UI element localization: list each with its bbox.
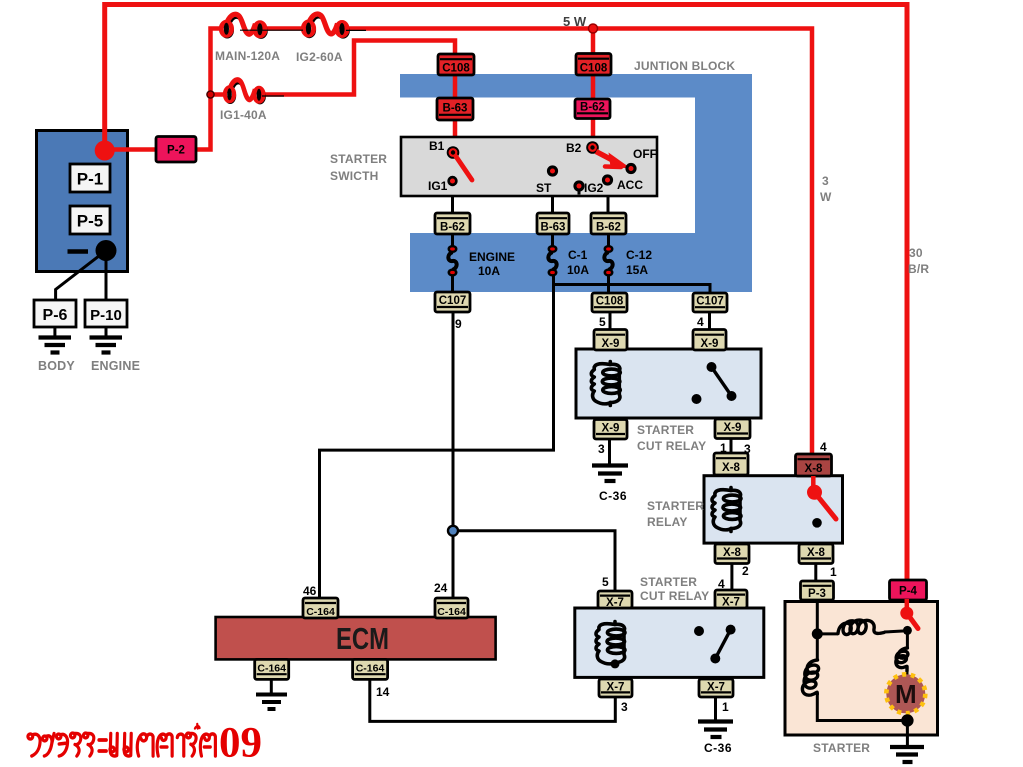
svg-text:OFF: OFF xyxy=(633,147,657,161)
svg-text:15A: 15A xyxy=(626,263,648,277)
relay X-9 box xyxy=(576,349,761,418)
switch terminal ACC xyxy=(602,174,613,185)
switch terminal B2 xyxy=(586,141,599,154)
svg-text:BODY: BODY xyxy=(38,359,75,373)
svg-text:C-164: C-164 xyxy=(257,663,286,675)
junction block xyxy=(400,74,752,292)
svg-text:M: M xyxy=(895,679,917,709)
wire X-9 coil into relay xyxy=(609,349,612,365)
wire X-9 lever to X-9(1) xyxy=(730,396,733,420)
connector X-9 bottom-right xyxy=(715,419,750,439)
connector B-63 under ST xyxy=(537,213,569,234)
svg-text:24: 24 xyxy=(434,581,448,595)
svg-text:1: 1 xyxy=(830,565,837,579)
connector X-8 bottom-right xyxy=(799,544,833,564)
svg-text:C-164: C-164 xyxy=(306,606,335,618)
battery minus bar xyxy=(68,249,89,254)
svg-text:X-7: X-7 xyxy=(707,682,725,694)
fuse C-12 15A xyxy=(604,245,614,277)
relay X-8 box xyxy=(704,476,843,543)
svg-text:ENGINE: ENGINE xyxy=(91,359,140,373)
switch terminal B1 xyxy=(447,146,460,159)
svg-text:46: 46 xyxy=(303,584,317,598)
svg-text:P-3: P-3 xyxy=(808,588,826,600)
fusible link MAIN-120A xyxy=(221,14,266,37)
svg-text:ST: ST xyxy=(536,181,552,195)
svg-text:1: 1 xyxy=(720,441,727,455)
svg-text:10A: 10A xyxy=(567,263,589,277)
wire X-7(3) to bottom run to ECM pin14 xyxy=(370,679,616,721)
svg-text:B-63: B-63 xyxy=(541,222,566,234)
starter junction dot left xyxy=(812,628,823,639)
svg-text:1: 1 xyxy=(722,700,729,714)
relay coil X-8 xyxy=(712,488,741,532)
svg-text:3: 3 xyxy=(822,174,829,188)
svg-text:W: W xyxy=(820,190,832,204)
connector X-7 pin3 xyxy=(599,679,632,697)
wire X-7 coil bottom to X-7(3) xyxy=(614,662,617,680)
connector C108 top-right xyxy=(576,54,611,76)
wire P-6 to ground xyxy=(53,327,56,336)
ground C-36 under X-7 xyxy=(698,722,733,738)
svg-text:4: 4 xyxy=(697,315,704,329)
wire ST to B-63 xyxy=(551,174,554,215)
connector C-164 pin24 xyxy=(435,598,468,618)
connector B-63 top-left xyxy=(437,98,473,120)
starter red switch dot and lever xyxy=(900,607,913,620)
relay X-7 box xyxy=(575,608,764,677)
wire IG1 branch xyxy=(211,92,227,97)
connector C-164 pin14 xyxy=(353,659,388,679)
wire P-3 down into starter xyxy=(816,600,819,634)
relay X-7 switch xyxy=(694,625,736,664)
svg-text:C108: C108 xyxy=(580,63,608,75)
wire C108(5) to X-9 coil pin xyxy=(609,311,612,331)
svg-text:B-63: B-63 xyxy=(443,103,468,115)
svg-text:P-4: P-4 xyxy=(899,586,918,598)
svg-text:C107: C107 xyxy=(439,295,467,307)
svg-text:5: 5 xyxy=(599,315,606,329)
wire 5W junction down to C108 right xyxy=(591,29,596,56)
svg-text:CUT RELAY: CUT RELAY xyxy=(637,439,706,453)
svg-text:10A: 10A xyxy=(478,264,500,278)
wire battery to top rail to P-4 xyxy=(105,5,907,582)
connector C-164 pin46 xyxy=(303,598,338,618)
svg-text:IG1-40A: IG1-40A xyxy=(220,108,267,122)
connector P-4 pink xyxy=(890,580,927,600)
starter right vertical coil xyxy=(896,648,908,671)
X-7 coil bottom junction dot xyxy=(611,659,620,668)
box P-6 xyxy=(34,300,76,327)
wire X-9(3) to ground C-36 xyxy=(608,439,611,464)
wire X-8 switch contact to X-8 BR xyxy=(815,522,818,545)
connector X-8 pin3 xyxy=(714,453,748,475)
connector X-7 pin4 xyxy=(715,590,747,609)
junction dot ENGINE wire xyxy=(448,526,458,536)
svg-text:X-9: X-9 xyxy=(724,422,742,434)
switch lever B1-IG1 red xyxy=(456,157,472,181)
svg-text:X-9: X-9 xyxy=(602,338,620,350)
svg-text:5: 5 xyxy=(602,575,609,589)
box P-5 xyxy=(70,206,110,234)
svg-text:IG1: IG1 xyxy=(428,179,448,193)
svg-text:P-6: P-6 xyxy=(43,307,68,324)
wire X-9(1) to X-8(3) xyxy=(730,439,733,455)
battery negative dot xyxy=(96,240,117,261)
ground under ECM C-164 xyxy=(256,695,287,710)
svg-text:B-62: B-62 xyxy=(580,102,605,114)
wire thread MAIN-IG2 black xyxy=(240,29,303,31)
connector B-62 under IG1 xyxy=(435,213,470,234)
svg-text:3: 3 xyxy=(744,442,751,456)
wire X-8 coil bottom to X-8 BL xyxy=(730,530,733,545)
svg-text:X-8: X-8 xyxy=(807,547,826,559)
svg-text:ECM: ECM xyxy=(336,621,389,656)
wire 5W: IG2 fuse right across, down to X-8 pin4 xyxy=(340,29,812,456)
connector X-7 pin1 xyxy=(699,679,733,697)
svg-text:JUNTION BLOCK: JUNTION BLOCK xyxy=(634,59,735,73)
wire X-9 coil bottom to X-9(3) xyxy=(609,402,612,421)
svg-text:B-62: B-62 xyxy=(440,222,465,234)
svg-text:9: 9 xyxy=(455,317,462,331)
svg-text:C108: C108 xyxy=(596,296,624,308)
wire starter to ground xyxy=(906,721,909,746)
svg-text:X-8: X-8 xyxy=(723,547,742,559)
wire IG1 fuse to C108 left xyxy=(259,41,455,95)
svg-text:C-36: C-36 xyxy=(704,741,732,755)
relay coil X-9 xyxy=(591,362,620,406)
fusible link IG1-40A xyxy=(225,80,265,103)
connector P-2 pink xyxy=(156,137,196,163)
svg-text:ACC: ACC xyxy=(617,178,643,192)
svg-text:30: 30 xyxy=(909,246,923,260)
connector C108 top-left xyxy=(438,54,474,75)
svg-text:STARTER: STARTER xyxy=(637,423,694,437)
fuse ENGINE 10A xyxy=(448,245,458,277)
wire X-8(3) to X-8 coil xyxy=(730,475,733,490)
svg-text:STARTER: STARTER xyxy=(647,499,704,513)
svg-text:ENGINE: ENGINE xyxy=(469,250,515,264)
switch terminal IG2 xyxy=(578,188,581,195)
battery positive red circle xyxy=(95,141,115,161)
wire X-7(5) to coil xyxy=(613,607,616,625)
relay X-8 red switch xyxy=(807,476,836,528)
svg-text:MAIN-120A: MAIN-120A xyxy=(215,49,280,63)
box P-1 xyxy=(70,164,110,192)
battery box xyxy=(37,131,128,272)
svg-text:X-8: X-8 xyxy=(722,462,741,474)
relay X-9 switch xyxy=(692,362,737,404)
wire battery negative to P-10 xyxy=(105,251,108,302)
wire X-8 BR to P-3 xyxy=(814,563,817,582)
connector X-9 top-right xyxy=(693,330,726,351)
svg-text:IG2-60A: IG2-60A xyxy=(296,50,343,64)
wire X-9 switch pin into relay xyxy=(708,349,711,368)
ground BODY under P-6 xyxy=(39,338,72,353)
svg-text:X-7: X-7 xyxy=(607,682,625,694)
junction dot IG1 feed xyxy=(207,91,214,98)
starter box xyxy=(785,602,938,736)
svg-text:X-7: X-7 xyxy=(606,597,624,609)
wire C107(4) to X-9 switch pin xyxy=(708,311,711,331)
connector C-164 ground xyxy=(255,659,289,679)
wire C-1 fuse down, branch to C107 right, down to C-164 46 xyxy=(320,271,554,598)
wire X-7(4) into relay xyxy=(729,607,732,631)
wire battery negative to P-6 xyxy=(56,251,106,302)
svg-text:3: 3 xyxy=(598,442,605,456)
svg-text:X-8: X-8 xyxy=(805,463,824,475)
svg-text:C-1: C-1 xyxy=(568,248,588,262)
relay coil X-7 xyxy=(596,622,625,666)
connector P-3 xyxy=(801,581,834,600)
svg-text:STARTER: STARTER xyxy=(813,741,870,755)
starter horizontal wire with coil xyxy=(817,632,838,635)
svg-text:B1: B1 xyxy=(429,139,445,153)
svg-text:P-2: P-2 xyxy=(167,145,185,157)
wire IG1 to B-62 xyxy=(451,184,454,215)
ground ENGINE under P-10 xyxy=(90,338,123,353)
starter horizontal coil xyxy=(838,620,884,634)
svg-text:09: 09 xyxy=(219,720,262,767)
starter left vertical wire xyxy=(816,634,819,660)
svg-text:CUT RELAY: CUT RELAY xyxy=(640,589,709,603)
switch terminal IG1 xyxy=(447,176,457,186)
connector C108 pin5 xyxy=(592,293,627,312)
svg-text:4: 4 xyxy=(820,440,827,454)
svg-text:C-12: C-12 xyxy=(626,248,652,262)
svg-text:P-10: P-10 xyxy=(90,307,122,324)
svg-text:X-7: X-7 xyxy=(722,597,740,609)
svg-text:14: 14 xyxy=(376,685,390,699)
connector X-9 bottom-left xyxy=(594,420,627,440)
wire P-10 to ground xyxy=(105,327,108,336)
ground under starter xyxy=(890,747,924,762)
wire B-62 to C-12 fuse to C108 xyxy=(607,232,610,249)
connector X-8 pin4 red xyxy=(796,454,832,476)
svg-text:SWICTH: SWICTH xyxy=(330,169,379,183)
connector B-62 top-right xyxy=(575,99,610,119)
svg-text:X-9: X-9 xyxy=(602,423,620,435)
svg-text:B2: B2 xyxy=(566,141,582,155)
wire ECM C-164 ground xyxy=(270,679,273,693)
wire MAIN fuse to IG2 fuse xyxy=(258,26,309,31)
wire X-7 lever bottom to X-7(1) xyxy=(714,658,717,680)
svg-text:P-5: P-5 xyxy=(77,212,103,231)
thai title xyxy=(28,724,215,756)
svg-text:C-36: C-36 xyxy=(599,489,627,503)
connector X-7 pin5 xyxy=(598,591,632,609)
connector C107 pin9 xyxy=(435,292,470,312)
connector X-8 bottom-left xyxy=(715,544,749,564)
svg-text:STARTER: STARTER xyxy=(330,152,387,166)
starter bottom junction dot xyxy=(901,714,913,726)
starter switch contact dot xyxy=(903,626,912,635)
junction dot 5W xyxy=(589,24,598,33)
svg-text:X-9: X-9 xyxy=(701,338,719,350)
svg-text:STARTER: STARTER xyxy=(640,575,697,589)
wire C108R to B-62 to B2 xyxy=(591,73,596,101)
connector B-62 under ACC xyxy=(591,213,626,234)
wire battery circle to P-2 xyxy=(105,147,156,152)
SWITCH-BOX starter switch xyxy=(401,137,657,196)
svg-text:C-164: C-164 xyxy=(437,606,466,618)
red wire P-4 into starter xyxy=(905,599,910,610)
svg-text:RELAY: RELAY xyxy=(647,515,688,529)
svg-text:C108: C108 xyxy=(442,63,470,75)
fuse C-1 10A xyxy=(548,245,558,277)
svg-text:IG2: IG2 xyxy=(584,181,604,195)
motor M circle xyxy=(886,674,925,713)
connector C107 pin4 xyxy=(693,293,727,312)
box P-10 xyxy=(85,300,127,327)
starter left vertical coil xyxy=(802,660,818,695)
svg-text:C107: C107 xyxy=(696,296,724,308)
svg-text:4: 4 xyxy=(718,577,725,591)
svg-text:3: 3 xyxy=(621,700,628,714)
wire C107 pin9 down across to X-7 pin5 and to C-164 24 xyxy=(452,312,455,598)
starter right vertical wire xyxy=(906,630,909,648)
wire B-63 to C-1 fuse xyxy=(551,232,554,249)
fusible link IG2-60A xyxy=(303,14,348,37)
wire X-7(1) to ground C-36 xyxy=(714,696,717,720)
ECM box xyxy=(216,617,496,659)
svg-text:5 W: 5 W xyxy=(563,14,587,29)
wire X-8 BL to X-7(4) xyxy=(730,563,733,591)
ground C-36 under X-9 xyxy=(592,466,628,482)
wire C108L to B-63 to B1 xyxy=(453,73,458,100)
wire ACC to B-62 xyxy=(607,184,610,215)
connector X-9 top-left xyxy=(594,330,627,351)
wire P-2 up to MAIN fuse xyxy=(196,29,222,150)
switch terminal ST xyxy=(547,165,558,176)
switch terminal OFF xyxy=(625,163,636,174)
svg-text:P-1: P-1 xyxy=(77,170,103,189)
svg-text:B-62: B-62 xyxy=(596,222,621,234)
red arrow B2 to OFF xyxy=(596,152,616,163)
wire B-62 to ENGINE fuse to C107 xyxy=(451,232,454,249)
svg-text:2: 2 xyxy=(742,564,749,578)
svg-text:C-164: C-164 xyxy=(356,663,385,675)
svg-text:B/R: B/R xyxy=(908,262,929,276)
